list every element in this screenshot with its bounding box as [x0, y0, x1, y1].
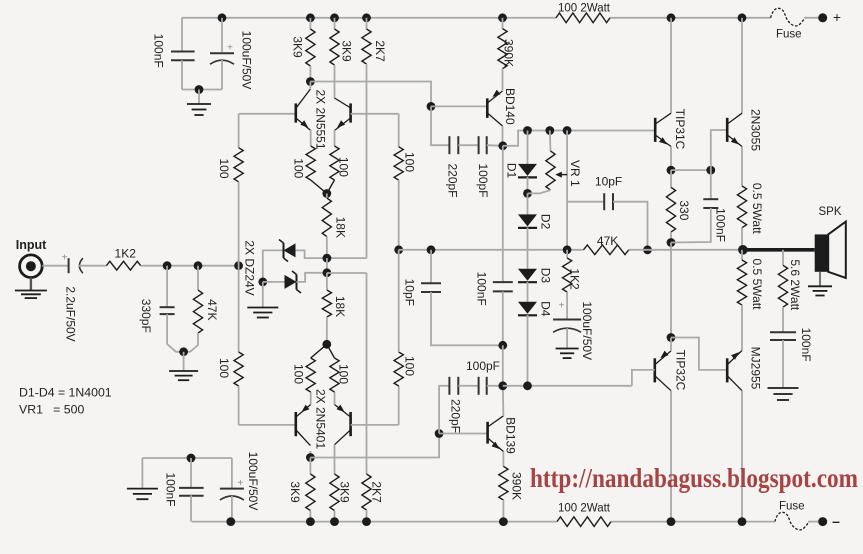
wire R21 to emitter node: [327, 344, 335, 358]
wire R16 to output: [741, 228, 743, 250]
wire top-left ground link: [182, 89, 222, 91]
svg-text:100: 100: [291, 158, 305, 178]
ground bottom-left: [127, 489, 158, 500]
node top-left ground junction: [195, 85, 204, 94]
svg-text:+: +: [559, 301, 565, 312]
wire D2 to D3 stem: [527, 228, 529, 269]
svg-text:100nF: 100nF: [474, 272, 488, 306]
svg-text:+: +: [227, 43, 233, 54]
node top rail 390K junction: [498, 13, 507, 22]
node upper 18K junction: [323, 254, 332, 263]
wire driver emitter column: [670, 243, 672, 338]
wire C15 bottom stem: [190, 495, 192, 521]
capacitor C2 100uF/50V top-left: [210, 31, 253, 90]
capacitor C7 10pF: [403, 279, 441, 306]
svg-text:47K: 47K: [205, 299, 219, 320]
diode D2 1N4001: [518, 214, 553, 230]
node 47K right junction: [643, 245, 652, 254]
wire VR1 top stem: [549, 131, 552, 152]
label VR1 note: [19, 403, 84, 417]
wire Q2 base: [351, 113, 399, 115]
wire BD140 collector lead: [502, 126, 504, 146]
ground speaker: [808, 286, 832, 295]
svg-text:220pF: 220pF: [449, 399, 463, 433]
wire Q3 emitter lead: [310, 392, 312, 405]
svg-text:18K: 18K: [333, 296, 347, 317]
wire Q1 base column upper: [238, 114, 240, 148]
resistor R22 100 feedback bottom: [394, 352, 417, 386]
wire zener column top: [263, 250, 284, 282]
svg-text:100pF: 100pF: [466, 359, 500, 373]
wire Q1 collector to BD140 base: [310, 82, 431, 107]
resistor R11 18K upper: [322, 198, 347, 238]
node bottom rail MJ2955 junction: [738, 517, 747, 526]
node 330 100nF junction: [667, 238, 676, 247]
capacitor C1 100nF top-left: [151, 34, 194, 68]
wire R11 to zener node: [326, 237, 328, 259]
ground zener clamp: [247, 308, 278, 318]
node top rail 2K7 R3 junction: [362, 13, 371, 22]
wire BD139 emitter lead: [502, 452, 504, 467]
node D1 VR1 junction: [523, 189, 532, 198]
wire TIP32C emitter lead: [670, 338, 672, 351]
svg-text:2X DZ24V: 2X DZ24V: [243, 240, 257, 295]
wire C3 to R5: [79, 265, 107, 267]
wire between 18K nodes: [326, 258, 328, 273]
svg-text:100nF: 100nF: [799, 328, 813, 362]
wire TIP32C collector column: [670, 391, 672, 522]
resistor R14 1K2: [563, 258, 582, 292]
wire BD139 base lead: [439, 433, 488, 435]
fuse F2 bottom: [775, 501, 809, 530]
diode D1 1N4001: [505, 163, 538, 179]
wire R25 bottom lead: [366, 510, 368, 522]
capacitor C3 2.2uF/50V input: [61, 252, 82, 341]
wire Q2 base column: [398, 114, 400, 147]
node bottom rail 390K junction: [499, 517, 508, 526]
wire R23 bottom lead: [309, 511, 311, 522]
node BD139 collector junction: [498, 381, 507, 390]
node bottom-left 100nF junction: [187, 454, 196, 463]
diode D4 1N4001: [518, 301, 553, 317]
node 47K left junction: [563, 245, 572, 254]
wire driver link top: [671, 169, 711, 171]
wire R19 to Q3 base bend: [238, 386, 240, 425]
input jack connector: [20, 255, 43, 278]
wire 100uF C2 top stem: [221, 18, 223, 52]
wire bottom-left ground stem: [141, 458, 143, 489]
svg-text:0.5 5Watt: 0.5 5Watt: [750, 259, 764, 311]
wire speaker thick lead: [743, 248, 815, 252]
wire between C13 C14: [458, 385, 478, 387]
resistor R18 5.6 2Watt: [778, 250, 802, 311]
wire C9 branch right: [613, 202, 648, 250]
node lower 18K junction: [323, 268, 332, 277]
node VR1 top junction: [545, 126, 554, 135]
capacitor C14 100pF bottom: [466, 359, 500, 395]
node top rail 3K9 R2 junction: [330, 13, 339, 22]
wire C9 10pF branch left: [567, 201, 604, 203]
watermark: [530, 463, 858, 493]
wire 390K R4 top lead: [502, 18, 504, 29]
wire VR1 wiper column: [566, 131, 568, 250]
resistor bottom rail 100 2Watt: [557, 503, 611, 527]
wire Q4 emitter lead: [334, 392, 336, 405]
node output junction: [738, 245, 748, 255]
svg-text:100pF: 100pF: [476, 163, 490, 197]
resistor R7 100 Q1 base: [217, 148, 243, 182]
capacitor C12 100nF zobel: [770, 328, 813, 362]
wire comp caps branch bottom: [439, 386, 449, 434]
zener D5 DZ24V upper: [243, 240, 296, 296]
node TIP31C emitter junction: [667, 166, 676, 175]
svg-text:2.2uF/50V: 2.2uF/50V: [64, 286, 78, 341]
capacitor C15 100nF bottom-left: [164, 472, 204, 506]
node top rail TIP31C collector junction: [667, 13, 676, 22]
wire 2N3055 collector column: [741, 18, 743, 113]
wire Q3 collector stub: [309, 451, 311, 458]
svg-text:VR1 = 500: VR1 = 500: [19, 403, 84, 417]
svg-text:100: 100: [337, 364, 351, 384]
node D4 bottom junction: [523, 381, 532, 390]
transistor Q3 2N5401 left: [296, 389, 328, 449]
node bottom rail 100uF junction: [226, 517, 235, 526]
diode D3 1N4001: [518, 268, 553, 284]
wire R6 bottom bend: [184, 333, 198, 352]
resistor R8 100 Q1 emitter: [291, 146, 315, 180]
resistor R15 330: [666, 187, 691, 232]
svg-text:D2: D2: [539, 214, 553, 230]
svg-text:1K2: 1K2: [568, 268, 582, 290]
wire R8 to emitter node: [311, 180, 327, 194]
wire C4 bottom bend: [167, 314, 184, 352]
svg-text:–: –: [832, 513, 840, 529]
node BD140 collector junction: [498, 141, 507, 150]
wire C8 bottom stem: [502, 291, 504, 345]
wire C10 ground stem: [566, 328, 568, 348]
wire R3 long column down: [366, 64, 368, 258]
resistor top rail 100 2Watt: [556, 3, 611, 23]
node Q1 collector junction: [306, 77, 315, 86]
svg-text:2K7: 2K7: [373, 40, 387, 62]
node input to diff pair: [234, 261, 243, 270]
ground zobel: [768, 388, 799, 400]
wire 2N3055 base jog: [711, 130, 727, 170]
transistor Q7 2N3055: [727, 109, 762, 151]
resistor R16 0.5 5Watt: [737, 183, 764, 235]
wire R14 to C10: [566, 292, 568, 320]
wire input filter ground stem: [183, 352, 185, 371]
wire TIP31C collector column: [670, 18, 672, 113]
svg-text:2X 2N5551: 2X 2N5551: [314, 89, 328, 149]
node bottom supply terminal: [818, 517, 827, 526]
potentiometer VR1 500: [546, 151, 582, 190]
svg-text:330: 330: [677, 200, 691, 220]
node top supply terminal: [818, 13, 827, 22]
capacitor C10 100uF/50V feedback: [553, 301, 594, 361]
transistor Q4 2N5401 right: [335, 405, 351, 445]
resistor R21 100 Q4 emitter: [330, 358, 351, 392]
zener D6 DZ24V lower: [285, 271, 302, 293]
transistor Q1 2N5551 left: [296, 89, 328, 150]
wire R17 to MJ2955 emitter: [741, 305, 743, 351]
wire BD140 base lead: [431, 105, 487, 107]
wire R22 to feedback node: [398, 250, 400, 352]
wiper arrow VR1: [555, 172, 567, 178]
label + supply: [833, 9, 841, 25]
wire top positive rail left segment: [182, 17, 556, 19]
wire speaker ground stem: [819, 272, 821, 287]
node 47K junction: [194, 261, 203, 270]
wire comp caps branch: [431, 106, 449, 145]
transistor Q10 BD139: [488, 416, 518, 454]
wire R1 top lead: [309, 18, 311, 29]
node bottom rail TIP32C junction: [667, 517, 676, 526]
svg-text:100nF: 100nF: [151, 34, 165, 68]
resistor R3 2K7: [362, 29, 387, 64]
node bottom diff pair emitter junction: [322, 340, 331, 349]
wire zener D6 anode: [263, 281, 285, 283]
svg-text:220pF: 220pF: [446, 163, 460, 197]
wire Q1 collector stub: [309, 82, 311, 89]
svg-text:10pF: 10pF: [595, 175, 622, 189]
node BD139 base junction: [435, 429, 444, 438]
svg-text:100nF: 100nF: [164, 472, 178, 506]
wire R9 to emitter node: [327, 180, 335, 194]
svg-text:100uF/50V: 100uF/50V: [580, 301, 594, 360]
wire bottom rail to fuse: [808, 521, 822, 523]
node BD140 base junction: [427, 102, 436, 111]
wire R17 0.5 5W bottom lead: [741, 250, 743, 260]
svg-text:D4: D4: [539, 301, 553, 317]
svg-text:Fuse: Fuse: [779, 501, 805, 513]
svg-text:TIP31C: TIP31C: [673, 109, 687, 150]
svg-text:BD139: BD139: [504, 417, 518, 454]
resistor R2 3K9: [330, 29, 354, 65]
svg-text:TIP32C: TIP32C: [674, 350, 688, 391]
wire MJ2955 base jog: [671, 338, 727, 370]
wire C7 10pF top stem: [430, 250, 432, 283]
svg-text:100uF/50V: 100uF/50V: [239, 31, 253, 90]
wire 100nF C1 bottom stem: [181, 60, 183, 89]
wire 100uF C2 bottom stem: [221, 60, 223, 90]
svg-text:SPK: SPK: [818, 206, 841, 218]
svg-text:3K9: 3K9: [338, 481, 352, 503]
wire top rail to fuse: [805, 17, 823, 19]
node diff pair emitter junction: [322, 189, 331, 198]
wire C4 330pF top stem: [166, 266, 168, 308]
wire MJ2955 collector column: [741, 391, 743, 522]
wire D1 bottom stem: [527, 177, 529, 193]
resistor R25 2K7 bottom: [362, 474, 384, 510]
svg-text:+: +: [833, 9, 841, 25]
wire Q1 base: [239, 113, 296, 115]
svg-text:10pF: 10pF: [403, 279, 417, 306]
wire R2 bottom lead to Q2 collector: [334, 65, 336, 98]
node bottom rail 3K9 R24 junction: [330, 517, 339, 526]
resistor R26 390K bottom: [499, 466, 524, 500]
wire input jack ground stem: [30, 278, 32, 291]
wire R10 to feedback node: [398, 180, 400, 250]
capacitor C16 100uF/50V bottom-left: [220, 452, 260, 511]
svg-text:D3: D3: [539, 268, 553, 284]
wire Q4 base column: [398, 386, 400, 425]
capacitor C6 100pF top: [476, 136, 490, 197]
node bottom rail 3K9 R23 junction: [306, 517, 315, 526]
transistor Q8 TIP32C: [655, 350, 688, 391]
wire C6 to VAS node: [487, 144, 503, 147]
resistor R17 0.5 5Watt bottom: [737, 259, 764, 311]
wire zener D6 to lower 18K node: [297, 273, 327, 282]
node zener lower junction: [258, 278, 267, 287]
node 330pF junction: [163, 261, 172, 270]
wire R20 to emitter node: [311, 344, 327, 358]
wire C11 bottom bend: [671, 208, 711, 243]
svg-text:D1: D1: [505, 163, 519, 179]
node bottom rail 2K7 junction: [362, 517, 371, 526]
wire BD139 collector lead: [502, 386, 505, 416]
wire bottom negative rail right segment: [611, 521, 775, 523]
svg-text:100nF: 100nF: [714, 208, 728, 242]
svg-text:100: 100: [217, 158, 231, 178]
resistor R20 100 Q3 emitter: [291, 358, 315, 392]
svg-text:VR 1: VR 1: [568, 160, 582, 187]
resistor R10 100 feedback top: [394, 147, 417, 180]
svg-text:MJ2955: MJ2955: [748, 347, 762, 390]
wire R24 bottom lead: [334, 511, 336, 522]
svg-text:2N3055: 2N3055: [748, 109, 762, 151]
resistor R12 18K lower: [322, 273, 347, 345]
svg-text:330pF: 330pF: [139, 299, 153, 333]
node D1 top junction: [523, 126, 532, 135]
speaker SPK: [815, 222, 846, 278]
wire R15 330 top lead: [670, 170, 672, 187]
wire Q3 base: [239, 424, 296, 426]
wire D4 bottom stem: [527, 315, 529, 386]
svg-text:390K: 390K: [502, 39, 516, 67]
wire R15 bottom lead: [670, 232, 672, 242]
resistor R19 100 Q3 base: [217, 352, 243, 386]
svg-text:100 2Watt: 100 2Watt: [558, 503, 611, 515]
wire Q3 collector to BD139 base: [310, 434, 439, 458]
svg-text:100: 100: [337, 157, 351, 177]
svg-text:100: 100: [291, 364, 305, 384]
wire jack to C3: [42, 265, 68, 267]
svg-text:BD140: BD140: [503, 88, 517, 125]
label SPK: [818, 206, 841, 218]
wire bottom negative rail left segment: [192, 521, 557, 523]
wire zener D5 to 18K node: [296, 250, 327, 258]
svg-text:47K: 47K: [597, 234, 618, 248]
wire feedback line left: [399, 249, 584, 251]
wire VAS jog to bias line: [503, 131, 655, 146]
node center 100nF junction: [498, 341, 507, 350]
wire emitter node to 18K: [326, 194, 328, 199]
node top rail 3K9 R1 junction: [306, 13, 315, 22]
resistor R13 47K feedback: [584, 234, 629, 255]
svg-text:0.5 5Watt: 0.5 5Watt: [750, 183, 764, 235]
node 10pF C7 junction: [427, 245, 436, 254]
svg-text:3K9: 3K9: [340, 40, 354, 62]
label - supply: [832, 513, 840, 529]
label Input: [16, 238, 47, 252]
capacitor C8 100nF center: [474, 272, 512, 306]
node top rail 100uF junction: [218, 13, 227, 22]
svg-text:D1-D4 = 1N4001: D1-D4 = 1N4001: [19, 386, 112, 400]
wire C16 bottom stem: [231, 496, 233, 522]
wire R6 47K top lead: [197, 266, 199, 290]
transistor Q5 BD140: [487, 88, 517, 126]
label D1-D4 note: [19, 386, 112, 400]
wire TIP31C emitter lead: [670, 147, 672, 171]
wire feedback line right: [629, 249, 743, 251]
wire R14 1K2 top lead: [566, 250, 568, 258]
wire VAS column to driver node: [502, 345, 504, 386]
capacitor C4 330pF: [139, 299, 175, 333]
node TIP32C emitter junction: [667, 333, 676, 342]
node 2N3055 base junction: [706, 166, 715, 175]
ground top-left: [187, 104, 211, 115]
wire R1 bottom lead: [309, 66, 311, 82]
wire 100nF C1 top stem: [181, 18, 183, 52]
svg-text:2K7: 2K7: [370, 481, 384, 503]
wire D1 top stem: [527, 131, 529, 164]
svg-text:100uF/50V: 100uF/50V: [246, 452, 260, 511]
ground input filter: [169, 371, 198, 380]
wire R3 column to 18K node: [327, 257, 367, 259]
svg-text:5.6 2Watt: 5.6 2Watt: [788, 259, 802, 311]
capacitor C5 220pF top: [446, 136, 460, 197]
wire R5 to input node: [141, 265, 239, 267]
wire Q1 emitter lead: [310, 130, 312, 146]
svg-text:+: +: [237, 478, 243, 489]
svg-text:1K2: 1K2: [115, 246, 137, 260]
capacitor C9 10pF right: [595, 175, 622, 211]
wire 390K R4 bottom lead: [502, 69, 504, 91]
wire R25 column to lower 18K node: [327, 272, 367, 274]
svg-text:Input: Input: [16, 238, 47, 252]
wire driver line bottom: [503, 385, 632, 387]
resistor R1 3K9: [291, 29, 315, 66]
wire top-left ground stem: [198, 90, 200, 105]
wire D3 to D4 stem: [527, 282, 529, 302]
svg-text:3K9: 3K9: [291, 36, 305, 58]
resistor R9 100 Q2 emitter: [330, 146, 351, 180]
svg-text:3K9: 3K9: [288, 481, 302, 503]
wire bottom-left ground link: [142, 457, 232, 459]
wire Q2 emitter lead: [334, 130, 336, 146]
svg-text:100 2Watt: 100 2Watt: [558, 3, 611, 15]
svg-text:100: 100: [403, 152, 417, 172]
wire Q3 base column lower: [238, 266, 240, 352]
resistor R5 1K2 input: [106, 246, 140, 270]
wire between C5 C6: [458, 144, 478, 146]
node feedback 100 junction: [394, 245, 403, 254]
wire D2 top stem: [527, 193, 529, 214]
resistor R24 3K9 bottom: [330, 474, 352, 511]
capacitor C13 220pF bottom: [449, 377, 463, 433]
svg-text:http://nandabaguss.blogspot.co: http://nandabaguss.blogspot.com: [530, 463, 858, 493]
wire C11 100nF top stem: [710, 170, 712, 199]
svg-text:100: 100: [403, 356, 417, 376]
wire C8 100nF top stem: [502, 146, 504, 282]
svg-text:Fuse: Fuse: [776, 29, 802, 41]
svg-text:390K: 390K: [510, 472, 524, 500]
svg-text:+: +: [61, 252, 67, 263]
wire zener ground stem: [262, 282, 264, 308]
wire Q4 collector lead: [334, 445, 336, 474]
transistor Q9 MJ2955: [727, 347, 762, 391]
